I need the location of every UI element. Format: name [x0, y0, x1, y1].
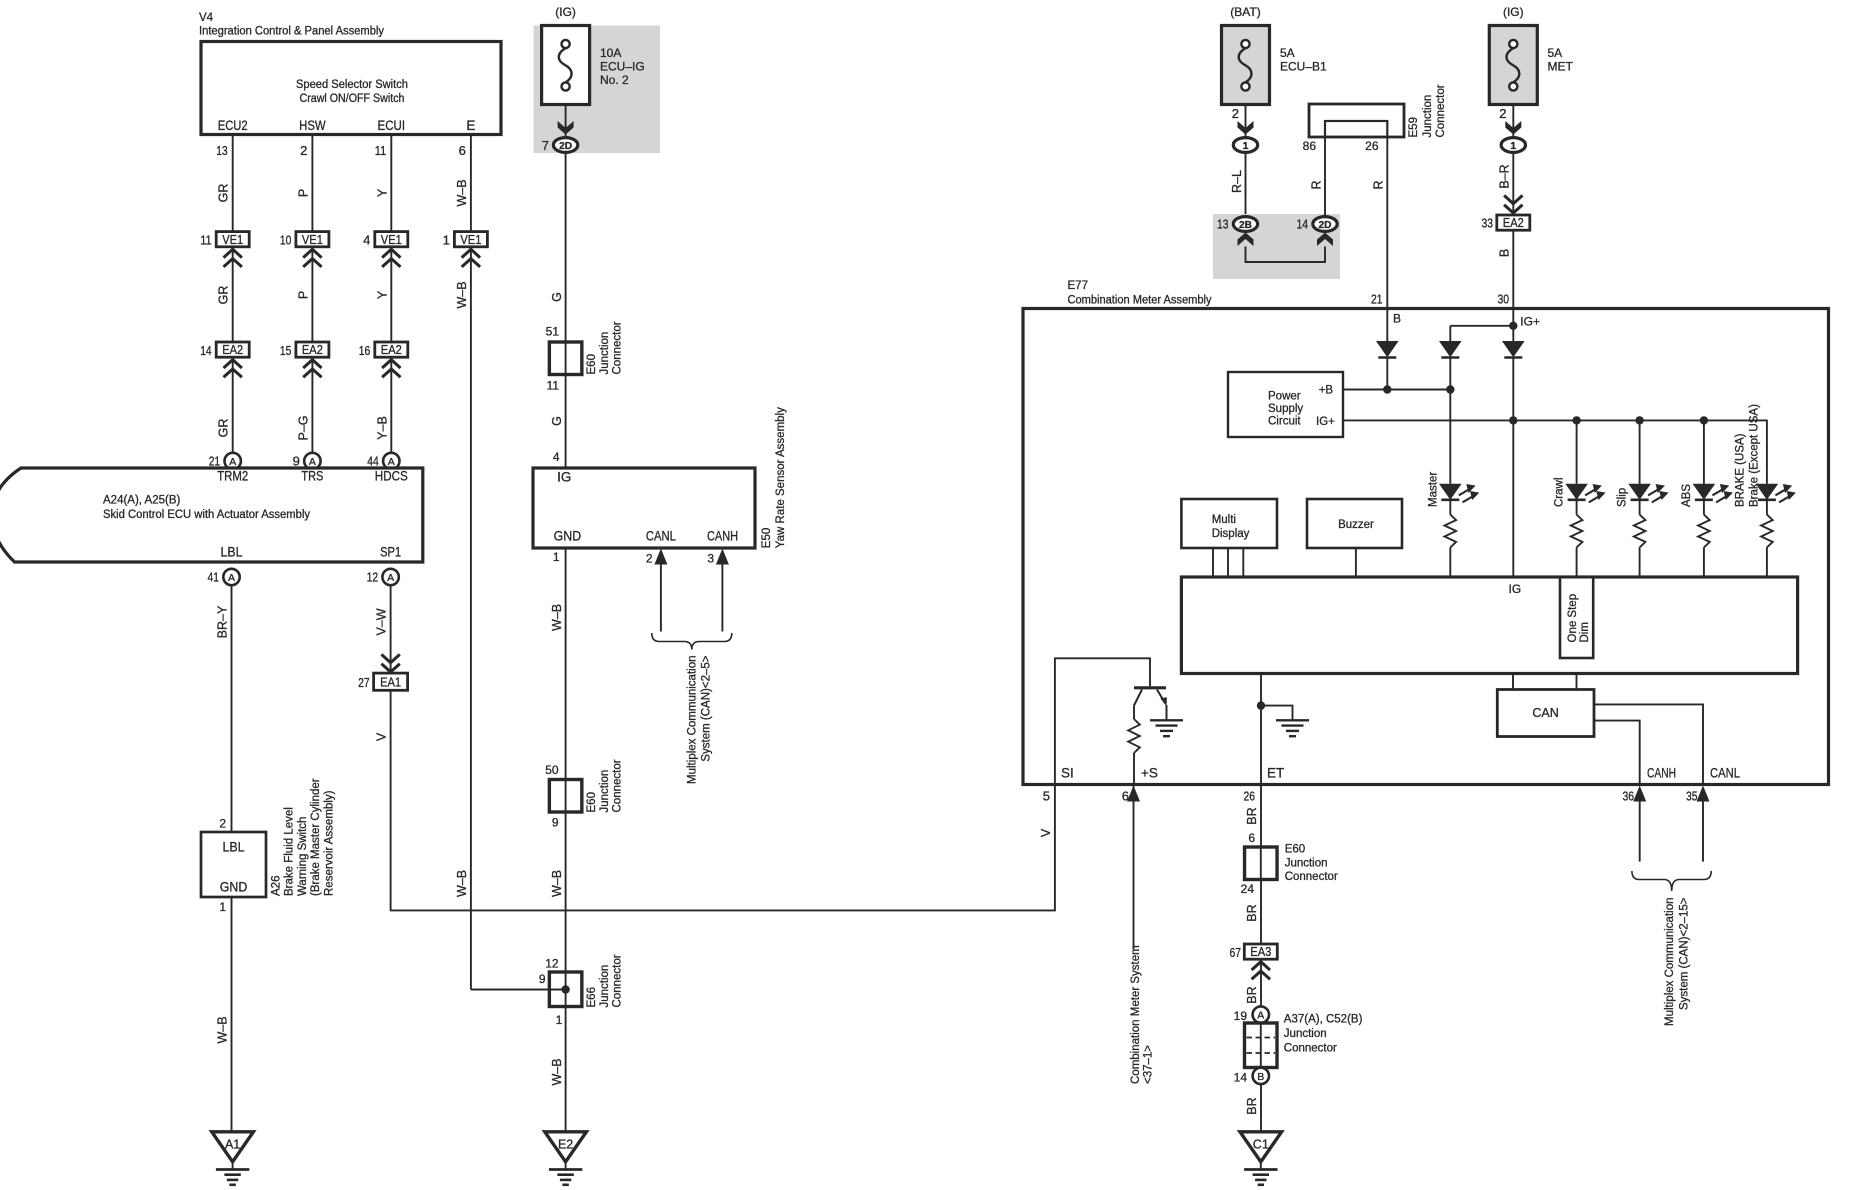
svg-text:10A: 10A	[600, 46, 621, 60]
label E50 Yaw Rate Sensor Assembly	[761, 407, 787, 548]
svg-text:VE1: VE1	[302, 233, 323, 247]
svg-text:Power: Power	[1268, 391, 1301, 403]
svg-text:86: 86	[1303, 139, 1317, 153]
svg-text:1: 1	[443, 232, 450, 247]
connector VE1 pin 11	[200, 232, 249, 267]
svg-text:Circuit: Circuit	[1268, 416, 1301, 428]
connector A pin 44	[367, 453, 399, 469]
wire CANH from CAN	[1594, 721, 1640, 785]
svg-text:10: 10	[280, 232, 292, 247]
connector 2D pin 14	[1297, 217, 1338, 247]
svg-text:67: 67	[1230, 945, 1242, 960]
svg-text:W–B: W–B	[216, 1016, 230, 1043]
svg-text:1: 1	[553, 550, 560, 564]
svg-text:6: 6	[1248, 831, 1255, 845]
wire Y-B segment 3	[375, 357, 391, 453]
label Crawl	[1554, 478, 1566, 507]
svg-text:21: 21	[209, 454, 221, 469]
svg-text:No. 2: No. 2	[600, 73, 629, 87]
svg-text:IG+: IG+	[1520, 315, 1540, 329]
svg-text:ECUI: ECUI	[378, 118, 406, 133]
svg-text:26: 26	[1365, 139, 1379, 153]
svg-text:1: 1	[556, 1013, 563, 1027]
svg-text:B: B	[1257, 1071, 1264, 1083]
svg-text:V4: V4	[199, 12, 214, 24]
wire V route to SI	[375, 690, 1055, 910]
svg-text:IG: IG	[1509, 582, 1522, 596]
svg-text:LBL: LBL	[223, 840, 245, 855]
pin E 6	[459, 118, 476, 158]
component V4 Integration Control & Panel Assembly	[199, 12, 501, 135]
svg-text:W–B: W–B	[455, 179, 469, 206]
svg-text:(IG): (IG)	[555, 5, 576, 19]
wire ECUI Y	[375, 136, 391, 232]
svg-text:ABS: ABS	[1681, 484, 1693, 507]
svg-text:System (CAN)<2–5>: System (CAN)<2–5>	[701, 655, 713, 761]
svg-text:Supply: Supply	[1268, 403, 1303, 415]
svg-text:IG+: IG+	[1316, 416, 1335, 428]
wire GR segment 3	[217, 357, 233, 453]
svg-text:V: V	[1039, 828, 1053, 837]
connector VE1 pin 1	[443, 232, 488, 267]
wire BR segment 3	[1245, 959, 1261, 1006]
svg-text:CANH: CANH	[707, 529, 738, 544]
svg-text:36: 36	[1623, 789, 1635, 804]
pin 86 E59	[1303, 137, 1325, 217]
svg-text:E77: E77	[1068, 280, 1088, 292]
svg-text:BR–Y: BR–Y	[216, 605, 230, 638]
svg-text:Junction: Junction	[599, 332, 611, 375]
svg-text:(BAT): (BAT)	[1230, 5, 1260, 19]
internal bus box	[1181, 577, 1797, 674]
svg-text:V: V	[375, 732, 389, 741]
svg-text:26: 26	[1244, 789, 1256, 804]
wire +B rail	[1343, 385, 1455, 393]
connector A pin 21	[209, 453, 241, 469]
ground A1	[212, 1132, 254, 1185]
svg-text:EA3: EA3	[1250, 945, 1271, 959]
ground Q1 emitter	[1150, 719, 1183, 721]
svg-text:A: A	[388, 456, 395, 468]
svg-text:16: 16	[359, 343, 371, 358]
svg-text:11: 11	[200, 232, 212, 247]
wire GND W-B to A1	[216, 897, 232, 1132]
svg-text:6: 6	[459, 143, 466, 158]
resistor BRAKE	[1761, 500, 1773, 577]
svg-text:W–B: W–B	[550, 1058, 564, 1085]
svg-text:21: 21	[1371, 292, 1383, 307]
svg-text:B: B	[1498, 249, 1512, 257]
svg-text:2D: 2D	[559, 140, 572, 152]
component E50 Yaw Rate Sensor Assembly	[533, 468, 755, 548]
svg-text:Multiplex Communication: Multiplex Communication	[687, 656, 699, 784]
One Step Dim block	[1560, 577, 1593, 658]
connector 1 pin 2 (IG)	[1499, 105, 1525, 153]
brace multiplex CAN 2-15	[1632, 871, 1711, 891]
svg-text:(Brake Master Cylinder: (Brake Master Cylinder	[310, 778, 322, 896]
connector A pin 9	[293, 453, 321, 469]
wire GR segment 2	[217, 247, 233, 342]
svg-text:14: 14	[1234, 1071, 1248, 1085]
svg-text:B: B	[1393, 312, 1401, 326]
wire IG+ pin 30	[1450, 310, 1540, 341]
svg-text:15: 15	[280, 343, 292, 358]
svg-text:ECU–B1: ECU–B1	[1280, 60, 1327, 74]
svg-text:Junction: Junction	[1285, 857, 1328, 869]
svg-text:GR: GR	[217, 184, 231, 203]
svg-text:BR: BR	[1245, 904, 1259, 921]
wire Master LED anode	[1449, 390, 1451, 484]
pin HSW 2	[299, 118, 326, 158]
svg-text:Speed Selector Switch: Speed Selector Switch	[296, 79, 408, 91]
svg-text:SI: SI	[1061, 766, 1074, 781]
svg-text:2: 2	[646, 552, 653, 566]
svg-text:A: A	[228, 572, 235, 584]
connector EA2 pin 16	[359, 342, 408, 377]
svg-text:Integration Control & Panel As: Integration Control & Panel Assembly	[199, 25, 384, 37]
svg-text:VE1: VE1	[381, 233, 402, 247]
svg-text:Skid Control ECU with Actuator: Skid Control ECU with Actuator Assembly	[103, 509, 310, 521]
wire 2B to 2D	[1246, 247, 1326, 263]
component E77 Combination Meter Assembly	[1023, 280, 1829, 785]
svg-text:G: G	[550, 292, 564, 302]
svg-text:CANL: CANL	[1710, 766, 1740, 781]
resistor ABS	[1698, 500, 1710, 577]
pin 2 CANL arrow	[646, 549, 668, 632]
LED Crawl	[1565, 484, 1605, 503]
component A26 Brake Fluid Level Warning Switch	[201, 832, 266, 897]
svg-text:HDCS: HDCS	[375, 468, 408, 483]
svg-text:BR: BR	[1245, 807, 1259, 824]
connector EA2 pin 14	[200, 342, 249, 377]
svg-text:W–B: W–B	[550, 870, 564, 897]
junction connector E66 pins 12/9/1	[471, 954, 624, 1027]
wire W-B segment to E66	[550, 812, 566, 972]
label ABS	[1681, 484, 1693, 507]
svg-text:1: 1	[219, 900, 226, 914]
wire CANL to multiplex	[1702, 801, 1704, 862]
ground ET	[1276, 719, 1309, 721]
resistor Crawl	[1571, 500, 1583, 577]
svg-text:Multiplex Communication: Multiplex Communication	[1664, 898, 1676, 1026]
pin CANH 36	[1623, 766, 1677, 804]
wire ET	[1257, 674, 1293, 785]
svg-text:W–B: W–B	[550, 604, 564, 631]
connector A pin 12	[367, 569, 399, 585]
svg-text:CANL: CANL	[646, 529, 676, 544]
svg-text:12: 12	[545, 957, 559, 971]
wire P segment 2	[296, 247, 312, 342]
svg-text:(IG): (IG)	[1503, 5, 1524, 19]
connector VE1 pin 4	[363, 232, 408, 267]
wire W-B segment 2	[455, 247, 471, 990]
svg-text:24: 24	[1241, 882, 1255, 896]
svg-text:11: 11	[547, 378, 560, 392]
svg-text:27: 27	[358, 675, 370, 690]
connector EA3 pin 67	[1230, 944, 1278, 979]
svg-text:A: A	[229, 456, 236, 468]
svg-text:Connector: Connector	[1284, 1043, 1337, 1055]
ground C1	[1240, 1132, 1282, 1185]
svg-text:CANH: CANH	[1647, 766, 1676, 781]
wire LBL BR-Y	[216, 585, 232, 832]
svg-text:<37–1>: <37–1>	[1143, 1045, 1155, 1084]
svg-text:2: 2	[219, 817, 226, 831]
svg-text:Connector: Connector	[612, 954, 624, 1007]
svg-text:B–R: B–R	[1498, 164, 1512, 188]
svg-text:2: 2	[1232, 106, 1239, 121]
LED BRAKE	[1756, 484, 1796, 503]
wire CANL from CAN	[1594, 704, 1703, 784]
svg-text:Junction: Junction	[599, 965, 611, 1008]
junction connector A37(A) C52(B)	[1245, 1014, 1363, 1068]
svg-text:TRS: TRS	[301, 468, 323, 483]
wire +S Combination Meter System	[1130, 786, 1155, 1085]
svg-text:Combination Meter System: Combination Meter System	[1130, 945, 1142, 1084]
svg-text:30: 30	[1498, 292, 1510, 307]
svg-text:W–B: W–B	[455, 870, 469, 897]
component Multi Display	[1181, 499, 1277, 548]
svg-text:Reservoir Assembly): Reservoir Assembly)	[323, 790, 335, 896]
svg-text:2B: 2B	[1239, 219, 1252, 231]
svg-text:Y: Y	[375, 188, 389, 197]
svg-text:Dim: Dim	[1579, 622, 1591, 642]
component Buzzer	[1307, 499, 1402, 548]
svg-text:E2: E2	[558, 1137, 573, 1151]
svg-text:Junction: Junction	[599, 770, 611, 813]
wire BRAKE LED anode	[1766, 483, 1768, 485]
svg-text:P: P	[296, 189, 310, 197]
svg-text:A: A	[387, 572, 394, 584]
resistor Slip	[1634, 500, 1646, 577]
wire P-G segment 3	[296, 357, 312, 453]
wire R-L	[1230, 152, 1246, 216]
svg-text:E: E	[466, 118, 475, 133]
transistor Q1	[1134, 688, 1167, 721]
svg-text:GR: GR	[217, 286, 231, 305]
svg-text:51: 51	[546, 325, 560, 339]
pin 26 E59 wire R	[1365, 137, 1387, 309]
label Master	[1427, 472, 1439, 507]
gray zone 2B 2D	[1213, 214, 1340, 279]
svg-text:Junction: Junction	[1284, 1028, 1327, 1040]
svg-text:9: 9	[552, 816, 559, 830]
wire BR segment 1	[1245, 786, 1261, 848]
svg-text:HSW: HSW	[299, 118, 326, 133]
svg-text:13: 13	[216, 143, 228, 158]
power supply circuit U1	[1228, 372, 1343, 437]
label Multiplex Communication System CAN 2-15	[1664, 897, 1691, 1026]
svg-text:EA2: EA2	[381, 343, 402, 357]
svg-text:C1: C1	[1253, 1137, 1269, 1151]
svg-text:Slip: Slip	[1617, 488, 1629, 507]
svg-text:E60: E60	[586, 792, 598, 812]
LED Slip	[1628, 484, 1668, 503]
svg-text:E60: E60	[586, 354, 598, 374]
svg-text:Warning Switch: Warning Switch	[297, 817, 309, 896]
connector 1 pin 2 (BAT)	[1232, 105, 1258, 153]
svg-text:System (CAN)<2–15>: System (CAN)<2–15>	[1679, 897, 1691, 1010]
svg-text:GND: GND	[220, 880, 248, 895]
svg-text:Display: Display	[1212, 528, 1250, 540]
LED ABS	[1693, 484, 1733, 503]
svg-text:E59: E59	[1408, 117, 1420, 137]
svg-text:A1: A1	[225, 1137, 240, 1151]
connector 2B pin 13	[1217, 217, 1258, 247]
diode D1	[1376, 341, 1399, 390]
label A26 Brake Fluid Level Warning Switch	[271, 778, 336, 896]
svg-text:Buzzer: Buzzer	[1338, 519, 1374, 531]
wire BR segment 2	[1245, 880, 1261, 945]
wire E W-B	[455, 136, 471, 232]
junction connector E59	[1309, 84, 1447, 137]
diode D3	[1502, 341, 1525, 420]
svg-text:Multi: Multi	[1212, 514, 1236, 526]
svg-text:2D: 2D	[1319, 219, 1332, 231]
svg-text:A: A	[1257, 1010, 1264, 1022]
svg-text:Connector: Connector	[1435, 84, 1447, 137]
fuse ECU-B1 5A	[1222, 5, 1328, 105]
svg-text:ECU2: ECU2	[218, 118, 248, 133]
svg-text:1: 1	[1510, 140, 1516, 152]
wires Multi Display to bus	[1213, 548, 1243, 577]
svg-text:CAN: CAN	[1532, 706, 1558, 720]
svg-text:P–G: P–G	[296, 415, 310, 440]
brace multiplex CAN 2-5	[652, 633, 732, 650]
wire ECU2 GR	[217, 136, 233, 232]
svg-text:5A: 5A	[1280, 46, 1295, 60]
wire Y segment 2	[375, 247, 391, 342]
svg-text:E66: E66	[586, 987, 598, 1007]
wire B to pin 30	[1498, 230, 1514, 308]
svg-text:ET: ET	[1267, 766, 1284, 781]
svg-text:BR: BR	[1245, 986, 1259, 1003]
svg-text:3: 3	[707, 552, 714, 566]
junction connector E60 pins 6/24	[1241, 831, 1338, 896]
svg-text:12: 12	[367, 570, 379, 585]
LED Master	[1439, 484, 1479, 503]
svg-text:Brake (Except USA): Brake (Except USA)	[1749, 404, 1761, 507]
svg-text:ECU–IG: ECU–IG	[600, 60, 645, 74]
svg-text:Yaw Rate Sensor Assembly: Yaw Rate Sensor Assembly	[775, 407, 787, 548]
svg-text:E60: E60	[1285, 844, 1305, 856]
wire Slip LED anode	[1639, 420, 1641, 483]
wire SP1 V-W	[375, 585, 391, 673]
junction connector E60 pins 51/11	[546, 321, 624, 392]
svg-text:GND: GND	[554, 529, 582, 544]
svg-text:EA1: EA1	[380, 675, 401, 689]
pin ECUI 11	[375, 118, 405, 158]
wire SI	[1055, 658, 1150, 784]
pin 3 CANH arrow	[707, 549, 729, 632]
svg-text:4: 4	[363, 232, 370, 247]
svg-text:EA2: EA2	[302, 343, 323, 357]
svg-text:5A: 5A	[1548, 46, 1563, 60]
ground E2	[545, 1132, 587, 1185]
svg-text:Crawl: Crawl	[1554, 478, 1566, 507]
svg-text:4: 4	[553, 450, 560, 464]
svg-text:R–L: R–L	[1230, 170, 1244, 193]
svg-text:E50: E50	[761, 528, 773, 548]
svg-text:P: P	[296, 291, 310, 299]
svg-text:Crawl ON/OFF Switch: Crawl ON/OFF Switch	[300, 93, 405, 105]
svg-text:A24(A), A25(B): A24(A), A25(B)	[103, 495, 181, 507]
wire IG+ rail	[1343, 416, 1767, 577]
wire BR segment 4	[1245, 1084, 1261, 1132]
fuse ECU-IG No.2 10A	[534, 5, 661, 153]
wire Crawl LED anode	[1576, 420, 1578, 483]
svg-text:Connector: Connector	[1285, 871, 1338, 883]
svg-text:9: 9	[539, 972, 546, 986]
svg-text:14: 14	[1297, 217, 1309, 232]
wire B pin 21	[1387, 310, 1401, 341]
svg-text:Combination Meter Assembly: Combination Meter Assembly	[1068, 294, 1212, 306]
svg-text:1: 1	[1243, 140, 1249, 152]
wire ABS LED anode	[1703, 420, 1705, 483]
svg-text:GR: GR	[217, 419, 231, 438]
svg-text:EA2: EA2	[1503, 216, 1524, 230]
pin ECU2 13	[216, 118, 247, 158]
svg-text:A: A	[309, 456, 316, 468]
svg-text:50: 50	[545, 763, 559, 777]
svg-text:33: 33	[1482, 216, 1494, 231]
pin +S 6	[1122, 766, 1158, 804]
wire HSW P	[296, 136, 312, 232]
svg-text:R: R	[1309, 180, 1323, 189]
resistor Master	[1445, 500, 1457, 577]
svg-text:44: 44	[367, 454, 379, 469]
svg-text:EA2: EA2	[222, 343, 243, 357]
connector EA2 pin 33	[1482, 195, 1530, 230]
svg-text:TRM2: TRM2	[217, 468, 248, 483]
svg-text:14: 14	[200, 343, 212, 358]
diode D2	[1439, 341, 1462, 390]
pin SI 5	[1043, 766, 1074, 804]
svg-text:MET: MET	[1548, 60, 1574, 74]
connector VE1 pin 10	[280, 232, 329, 267]
svg-text:A26: A26	[271, 876, 283, 896]
svg-text:LBL: LBL	[221, 545, 243, 560]
wire Buzzer to bus	[1355, 548, 1357, 577]
svg-text:One Step: One Step	[1567, 594, 1579, 643]
svg-text:W–B: W–B	[455, 281, 469, 308]
svg-text:9: 9	[293, 454, 300, 469]
wire B-R	[1498, 152, 1514, 215]
svg-text:Master: Master	[1427, 472, 1439, 507]
svg-text:V–W: V–W	[375, 608, 389, 635]
label Multiplex Communication System CAN 2-5	[687, 655, 713, 784]
svg-text:G: G	[550, 416, 564, 426]
CAN block	[1497, 674, 1594, 737]
svg-text:IG: IG	[557, 470, 571, 485]
svg-text:Connector: Connector	[612, 759, 624, 812]
svg-text:VE1: VE1	[222, 233, 243, 247]
svg-text:A37(A), C52(B): A37(A), C52(B)	[1284, 1014, 1363, 1026]
wire W-B to E2	[550, 1007, 566, 1132]
svg-text:7: 7	[542, 138, 549, 153]
svg-text:41: 41	[208, 570, 220, 585]
connector B pin 14	[1234, 1068, 1269, 1085]
svg-text:VE1: VE1	[460, 233, 481, 247]
svg-text:+S: +S	[1141, 766, 1158, 781]
svg-text:BRAKE (USA): BRAKE (USA)	[1735, 433, 1747, 507]
svg-text:+B: +B	[1319, 385, 1334, 397]
connector 2D pin 7	[542, 105, 578, 154]
svg-text:SP1: SP1	[380, 545, 401, 560]
pin CANL 35	[1686, 766, 1740, 804]
connector A pin 19	[1234, 1006, 1269, 1023]
connector EA2 pin 15	[280, 342, 329, 377]
